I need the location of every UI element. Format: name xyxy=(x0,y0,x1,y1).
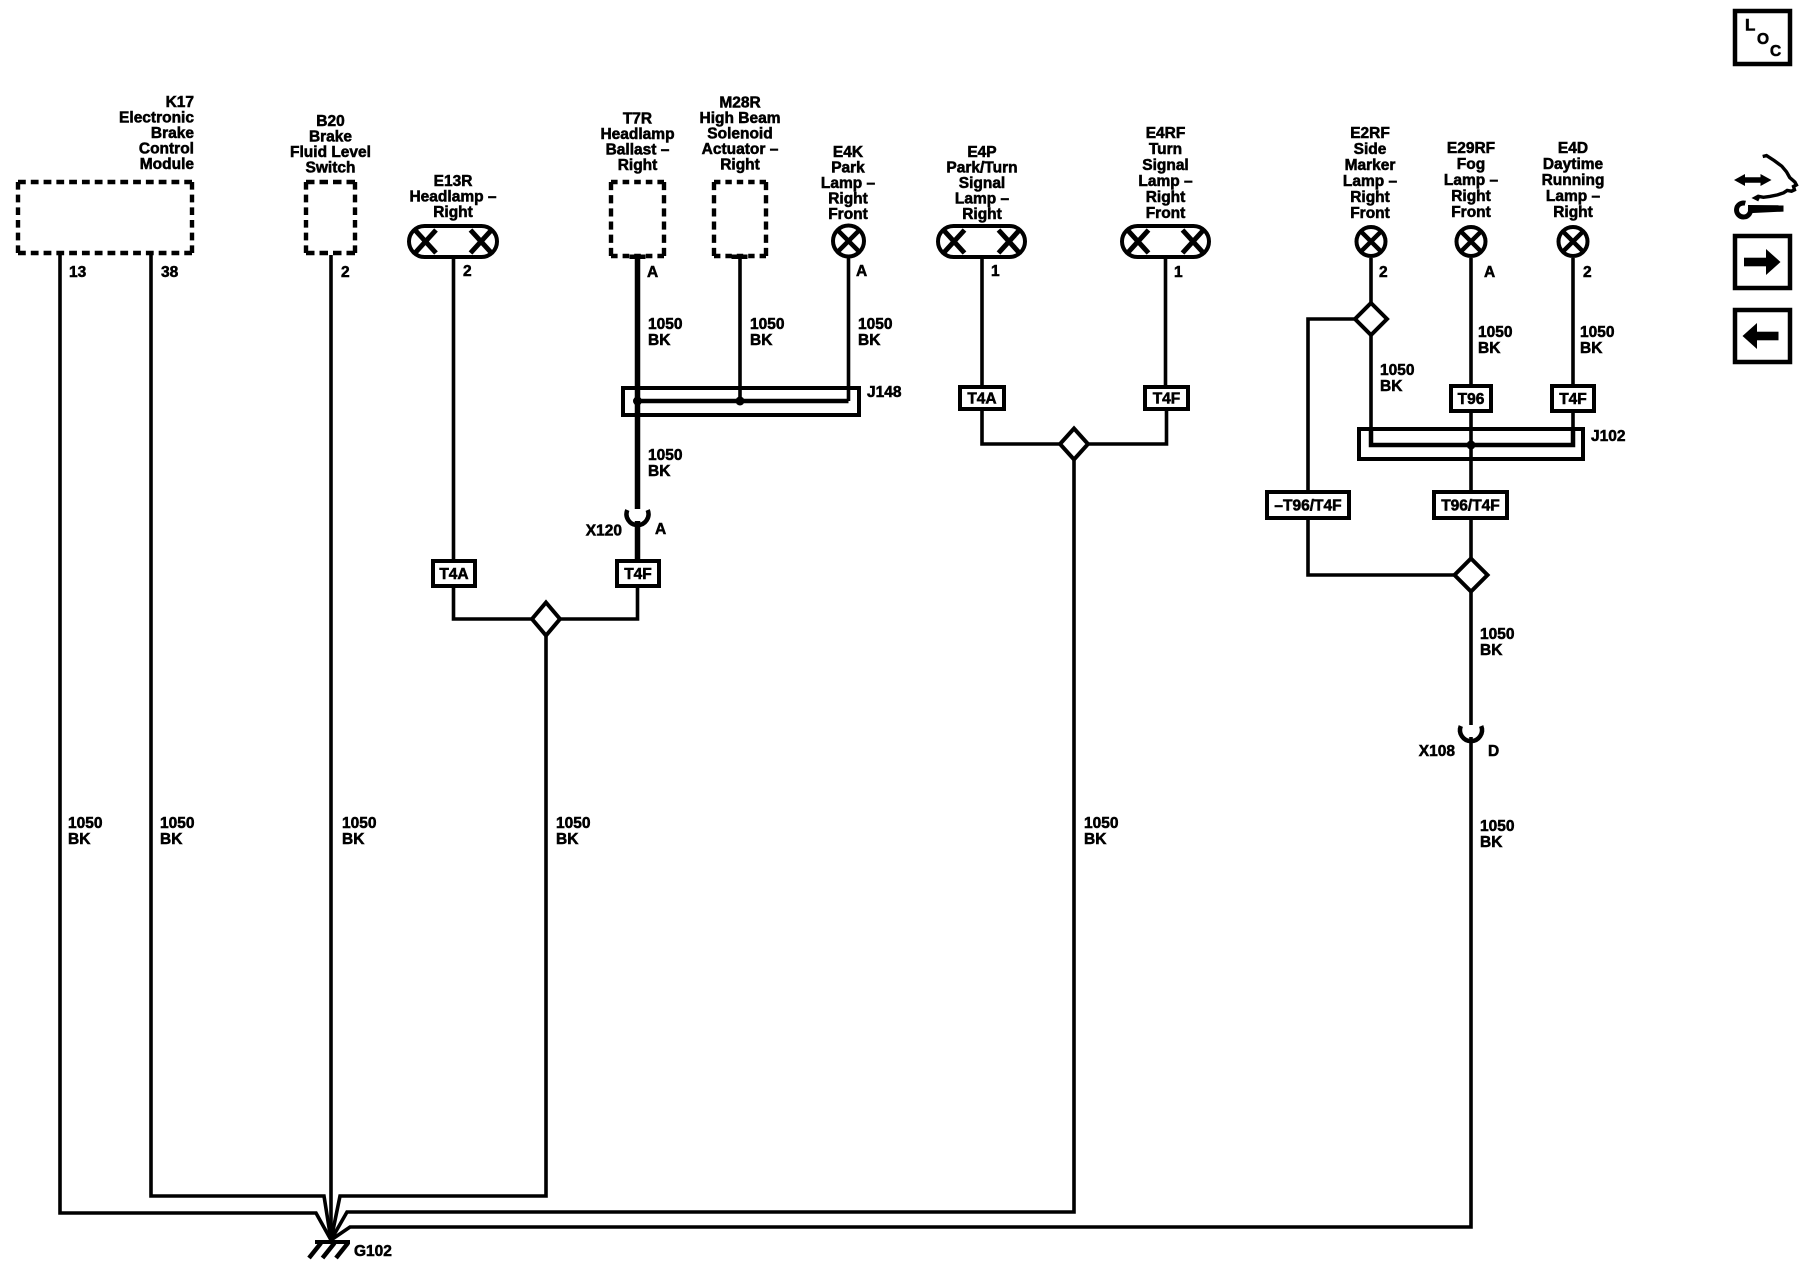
icon double arrow with panel and wrench xyxy=(1743,177,1763,183)
wire from T4F to diamond junction xyxy=(1088,411,1167,444)
svg-text:BK: BK xyxy=(648,463,671,480)
ballast T7R dashed box xyxy=(611,180,664,184)
svg-text:1050: 1050 xyxy=(342,815,376,832)
wire from X108 to G102 xyxy=(331,737,1471,1240)
ground G102 symbol xyxy=(315,1240,350,1244)
lamp E29RF circle symbol xyxy=(1457,227,1486,256)
lamp E4P stadium symbol xyxy=(938,226,1025,257)
svg-text:A: A xyxy=(856,263,867,280)
svg-text:Right: Right xyxy=(433,204,473,221)
wire from -T96/T4F to right diamond xyxy=(1308,520,1455,575)
lamp E4K circle symbol xyxy=(833,226,864,257)
svg-text:BK: BK xyxy=(160,831,183,848)
svg-text:1: 1 xyxy=(991,263,1000,280)
svg-text:BK: BK xyxy=(68,831,91,848)
wire from diamond junction to G102 xyxy=(331,636,546,1241)
svg-text:A: A xyxy=(1484,264,1495,281)
svg-text:X120: X120 xyxy=(586,523,622,540)
splice sleeve T4A (middle) xyxy=(960,387,1004,409)
svg-text:T4A: T4A xyxy=(439,566,468,583)
wire from T4F to diamond junction xyxy=(560,588,638,619)
wire from E4K pin A to splice J148 xyxy=(847,258,851,401)
wire from E4RF pin 1 to T4F xyxy=(1164,259,1168,385)
wire from E2RF diamond to -T96/T4F sleeve xyxy=(1308,319,1355,490)
wire from T96 through J102 to T96/T4F sleeve xyxy=(1469,413,1473,490)
svg-text:J148: J148 xyxy=(867,384,902,401)
svg-text:Right: Right xyxy=(1451,188,1491,205)
svg-text:A: A xyxy=(647,264,658,281)
splice sleeve -T96/T4F xyxy=(1267,492,1349,518)
M28R pin stub xyxy=(732,255,748,260)
diamond junction (E4P/E4RF) xyxy=(1060,429,1088,460)
svg-text:BK: BK xyxy=(1084,831,1107,848)
wire from T4A to diamond junction xyxy=(454,588,534,619)
splice pack J102 bus bar xyxy=(1371,429,1573,445)
svg-text:BK: BK xyxy=(1480,642,1503,659)
svg-text:1050: 1050 xyxy=(648,447,682,464)
svg-text:Side: Side xyxy=(1354,141,1387,158)
svg-text:Right: Right xyxy=(1146,189,1186,206)
svg-text:Ballast –: Ballast – xyxy=(606,142,670,159)
splice sleeve T4F (middle) xyxy=(1145,387,1188,409)
svg-text:High Beam: High Beam xyxy=(700,110,781,127)
wire from E4D pin 2 to T4F xyxy=(1571,258,1575,384)
legend LOC box xyxy=(1735,11,1790,64)
svg-text:2: 2 xyxy=(1583,264,1592,281)
svg-text:E4RF: E4RF xyxy=(1146,125,1186,142)
svg-text:1050: 1050 xyxy=(750,316,784,333)
svg-text:J102: J102 xyxy=(1591,428,1625,445)
svg-text:Right: Right xyxy=(1553,204,1593,221)
wire from B20 pin 2 to G102 xyxy=(329,255,333,1240)
svg-text:T7R: T7R xyxy=(623,111,652,128)
svg-text:Control: Control xyxy=(139,141,194,158)
inline connector X108 xyxy=(1460,726,1482,741)
svg-text:C: C xyxy=(1770,43,1781,60)
svg-text:1050: 1050 xyxy=(1380,362,1414,379)
svg-text:BK: BK xyxy=(1580,340,1603,357)
svg-text:Front: Front xyxy=(1350,205,1390,222)
svg-text:T96/T4F: T96/T4F xyxy=(1441,498,1500,515)
svg-text:Signal: Signal xyxy=(1142,157,1189,174)
wire from M28R to splice J148 xyxy=(738,259,742,400)
svg-text:T4F: T4F xyxy=(1559,391,1587,408)
svg-text:Front: Front xyxy=(1451,204,1491,221)
svg-text:E2RF: E2RF xyxy=(1350,125,1390,142)
switch B20 dashed box xyxy=(306,180,355,184)
thick wire from T7R pin A through J148 to X120 xyxy=(635,256,641,509)
svg-text:D: D xyxy=(1488,743,1499,760)
svg-text:Park/Turn: Park/Turn xyxy=(946,160,1017,177)
svg-text:BK: BK xyxy=(556,831,579,848)
svg-text:Front: Front xyxy=(828,206,868,223)
thick wire from X120 to T4F xyxy=(635,521,641,559)
svg-text:BK: BK xyxy=(1380,378,1403,395)
splice sleeve T96/T4F xyxy=(1434,492,1507,518)
splice sleeve T4F (left) xyxy=(617,561,659,586)
svg-text:A: A xyxy=(655,521,666,538)
svg-text:Fluid Level: Fluid Level xyxy=(290,144,371,161)
svg-text:T96: T96 xyxy=(1458,391,1485,408)
svg-text:1050: 1050 xyxy=(858,316,892,333)
wire from K17 pin 13 to G102 xyxy=(60,255,331,1240)
svg-text:–T96/T4F: –T96/T4F xyxy=(1274,498,1341,515)
svg-text:Park: Park xyxy=(831,160,865,177)
svg-text:B20: B20 xyxy=(316,113,344,130)
splice pack J148 outer box xyxy=(623,388,859,415)
lamp E2RF circle symbol xyxy=(1357,227,1386,256)
svg-text:T4A: T4A xyxy=(967,391,996,408)
svg-text:Front: Front xyxy=(1146,205,1186,222)
svg-text:Headlamp: Headlamp xyxy=(600,126,674,143)
lamp E4RF stadium symbol xyxy=(1122,226,1209,257)
svg-text:E4P: E4P xyxy=(967,144,996,161)
svg-text:2: 2 xyxy=(341,264,350,281)
wire from E4P/E4RF diamond to G102 xyxy=(331,460,1074,1241)
svg-text:BK: BK xyxy=(648,332,671,349)
wire from E2RF diamond down to J102 xyxy=(1369,335,1373,430)
svg-text:Signal: Signal xyxy=(959,175,1006,192)
splice pack J148 bus bar xyxy=(636,399,849,404)
module K17 dashed box xyxy=(18,180,192,184)
svg-text:Turn: Turn xyxy=(1149,141,1182,158)
svg-text:Lamp –: Lamp – xyxy=(1546,188,1601,205)
diamond junction (right chain) xyxy=(1455,559,1488,592)
svg-text:K17: K17 xyxy=(166,94,194,111)
svg-text:Headlamp –: Headlamp – xyxy=(409,189,496,206)
svg-text:Switch: Switch xyxy=(306,160,356,177)
svg-text:X108: X108 xyxy=(1419,743,1456,760)
svg-text:1050: 1050 xyxy=(1480,626,1514,643)
svg-text:Lamp –: Lamp – xyxy=(955,191,1010,208)
svg-text:Lamp –: Lamp – xyxy=(1444,172,1499,189)
wire from T4F down into J102 xyxy=(1571,413,1575,444)
wire from E13R pin 2 to T4A xyxy=(452,259,456,559)
junction dot (E29RF at J102) xyxy=(1467,441,1476,450)
svg-text:BK: BK xyxy=(750,332,773,349)
svg-text:BK: BK xyxy=(342,831,365,848)
svg-text:Lamp –: Lamp – xyxy=(821,175,876,192)
svg-text:BK: BK xyxy=(1480,834,1503,851)
svg-text:E4D: E4D xyxy=(1558,140,1588,157)
svg-text:Right: Right xyxy=(962,206,1002,223)
svg-text:1050: 1050 xyxy=(1580,324,1614,341)
junction dot (M28R at J148) xyxy=(736,397,745,406)
svg-text:1050: 1050 xyxy=(648,316,682,333)
svg-text:2: 2 xyxy=(1379,264,1388,281)
actuator M28R dashed box xyxy=(714,180,766,184)
svg-text:1050: 1050 xyxy=(1084,815,1118,832)
svg-text:E4K: E4K xyxy=(833,144,864,161)
T7R pin stub xyxy=(630,255,646,260)
svg-text:2: 2 xyxy=(463,263,472,280)
diamond junction (E13R/T7R) xyxy=(532,603,560,636)
icon box arrow right (next page) xyxy=(1735,236,1790,288)
svg-text:38: 38 xyxy=(161,264,179,281)
svg-text:Electronic: Electronic xyxy=(119,110,194,127)
svg-text:T4F: T4F xyxy=(1153,391,1181,408)
svg-text:L: L xyxy=(1745,16,1755,35)
wire from T96/T4F to right diamond xyxy=(1469,520,1473,559)
svg-text:Daytime: Daytime xyxy=(1543,156,1604,173)
svg-text:E13R: E13R xyxy=(434,173,473,190)
svg-text:Lamp –: Lamp – xyxy=(1343,173,1398,190)
splice sleeve T4A (left) xyxy=(433,561,475,586)
svg-text:1: 1 xyxy=(1174,264,1183,281)
svg-text:1050: 1050 xyxy=(1478,324,1512,341)
wire from T4A to diamond junction xyxy=(982,411,1060,444)
svg-text:Brake: Brake xyxy=(151,125,194,142)
svg-text:Actuator –: Actuator – xyxy=(702,141,779,158)
splice sleeve T4F (right) xyxy=(1552,386,1594,411)
wire from E29RF pin A to T96 xyxy=(1469,258,1473,384)
svg-text:G102: G102 xyxy=(354,1243,392,1260)
splice pack J102 outer box xyxy=(1359,429,1583,459)
svg-text:1050: 1050 xyxy=(68,815,102,832)
svg-text:Module: Module xyxy=(140,156,195,173)
svg-text:1050: 1050 xyxy=(160,815,194,832)
svg-text:1050: 1050 xyxy=(556,815,590,832)
svg-text:M28R: M28R xyxy=(719,95,760,112)
svg-text:O: O xyxy=(1757,31,1769,48)
svg-text:13: 13 xyxy=(69,264,87,281)
svg-text:Marker: Marker xyxy=(1345,157,1396,174)
svg-text:1050: 1050 xyxy=(1480,818,1514,835)
svg-text:Running: Running xyxy=(1542,172,1605,189)
svg-text:Fog: Fog xyxy=(1457,156,1485,173)
svg-text:T4F: T4F xyxy=(624,566,652,583)
wire from E2RF pin 2 to diamond xyxy=(1369,258,1373,303)
svg-text:BK: BK xyxy=(858,332,881,349)
svg-text:Right: Right xyxy=(618,157,658,174)
svg-text:Right: Right xyxy=(1350,189,1390,206)
svg-text:Lamp –: Lamp – xyxy=(1138,173,1193,190)
wire from E4P pin 1 to T4A xyxy=(980,259,984,385)
svg-text:Brake: Brake xyxy=(309,129,352,146)
lamp E13R stadium symbol xyxy=(409,226,497,257)
diamond junction (E2RF) xyxy=(1355,303,1387,335)
svg-text:BK: BK xyxy=(1478,340,1501,357)
icon box arrow left (previous page) xyxy=(1735,310,1790,362)
svg-text:E29RF: E29RF xyxy=(1447,140,1495,157)
wire from right diamond to X108 xyxy=(1469,592,1473,726)
svg-text:Right: Right xyxy=(720,157,760,174)
wire from K17 pin 38 to G102 xyxy=(151,255,331,1240)
junction dot (T7R at J148) xyxy=(633,397,642,406)
inline connector X120 xyxy=(627,510,649,525)
svg-text:Right: Right xyxy=(828,191,868,208)
lamp E4D circle symbol xyxy=(1559,227,1588,256)
splice sleeve T96 xyxy=(1451,386,1491,411)
svg-text:Solenoid: Solenoid xyxy=(707,126,772,143)
